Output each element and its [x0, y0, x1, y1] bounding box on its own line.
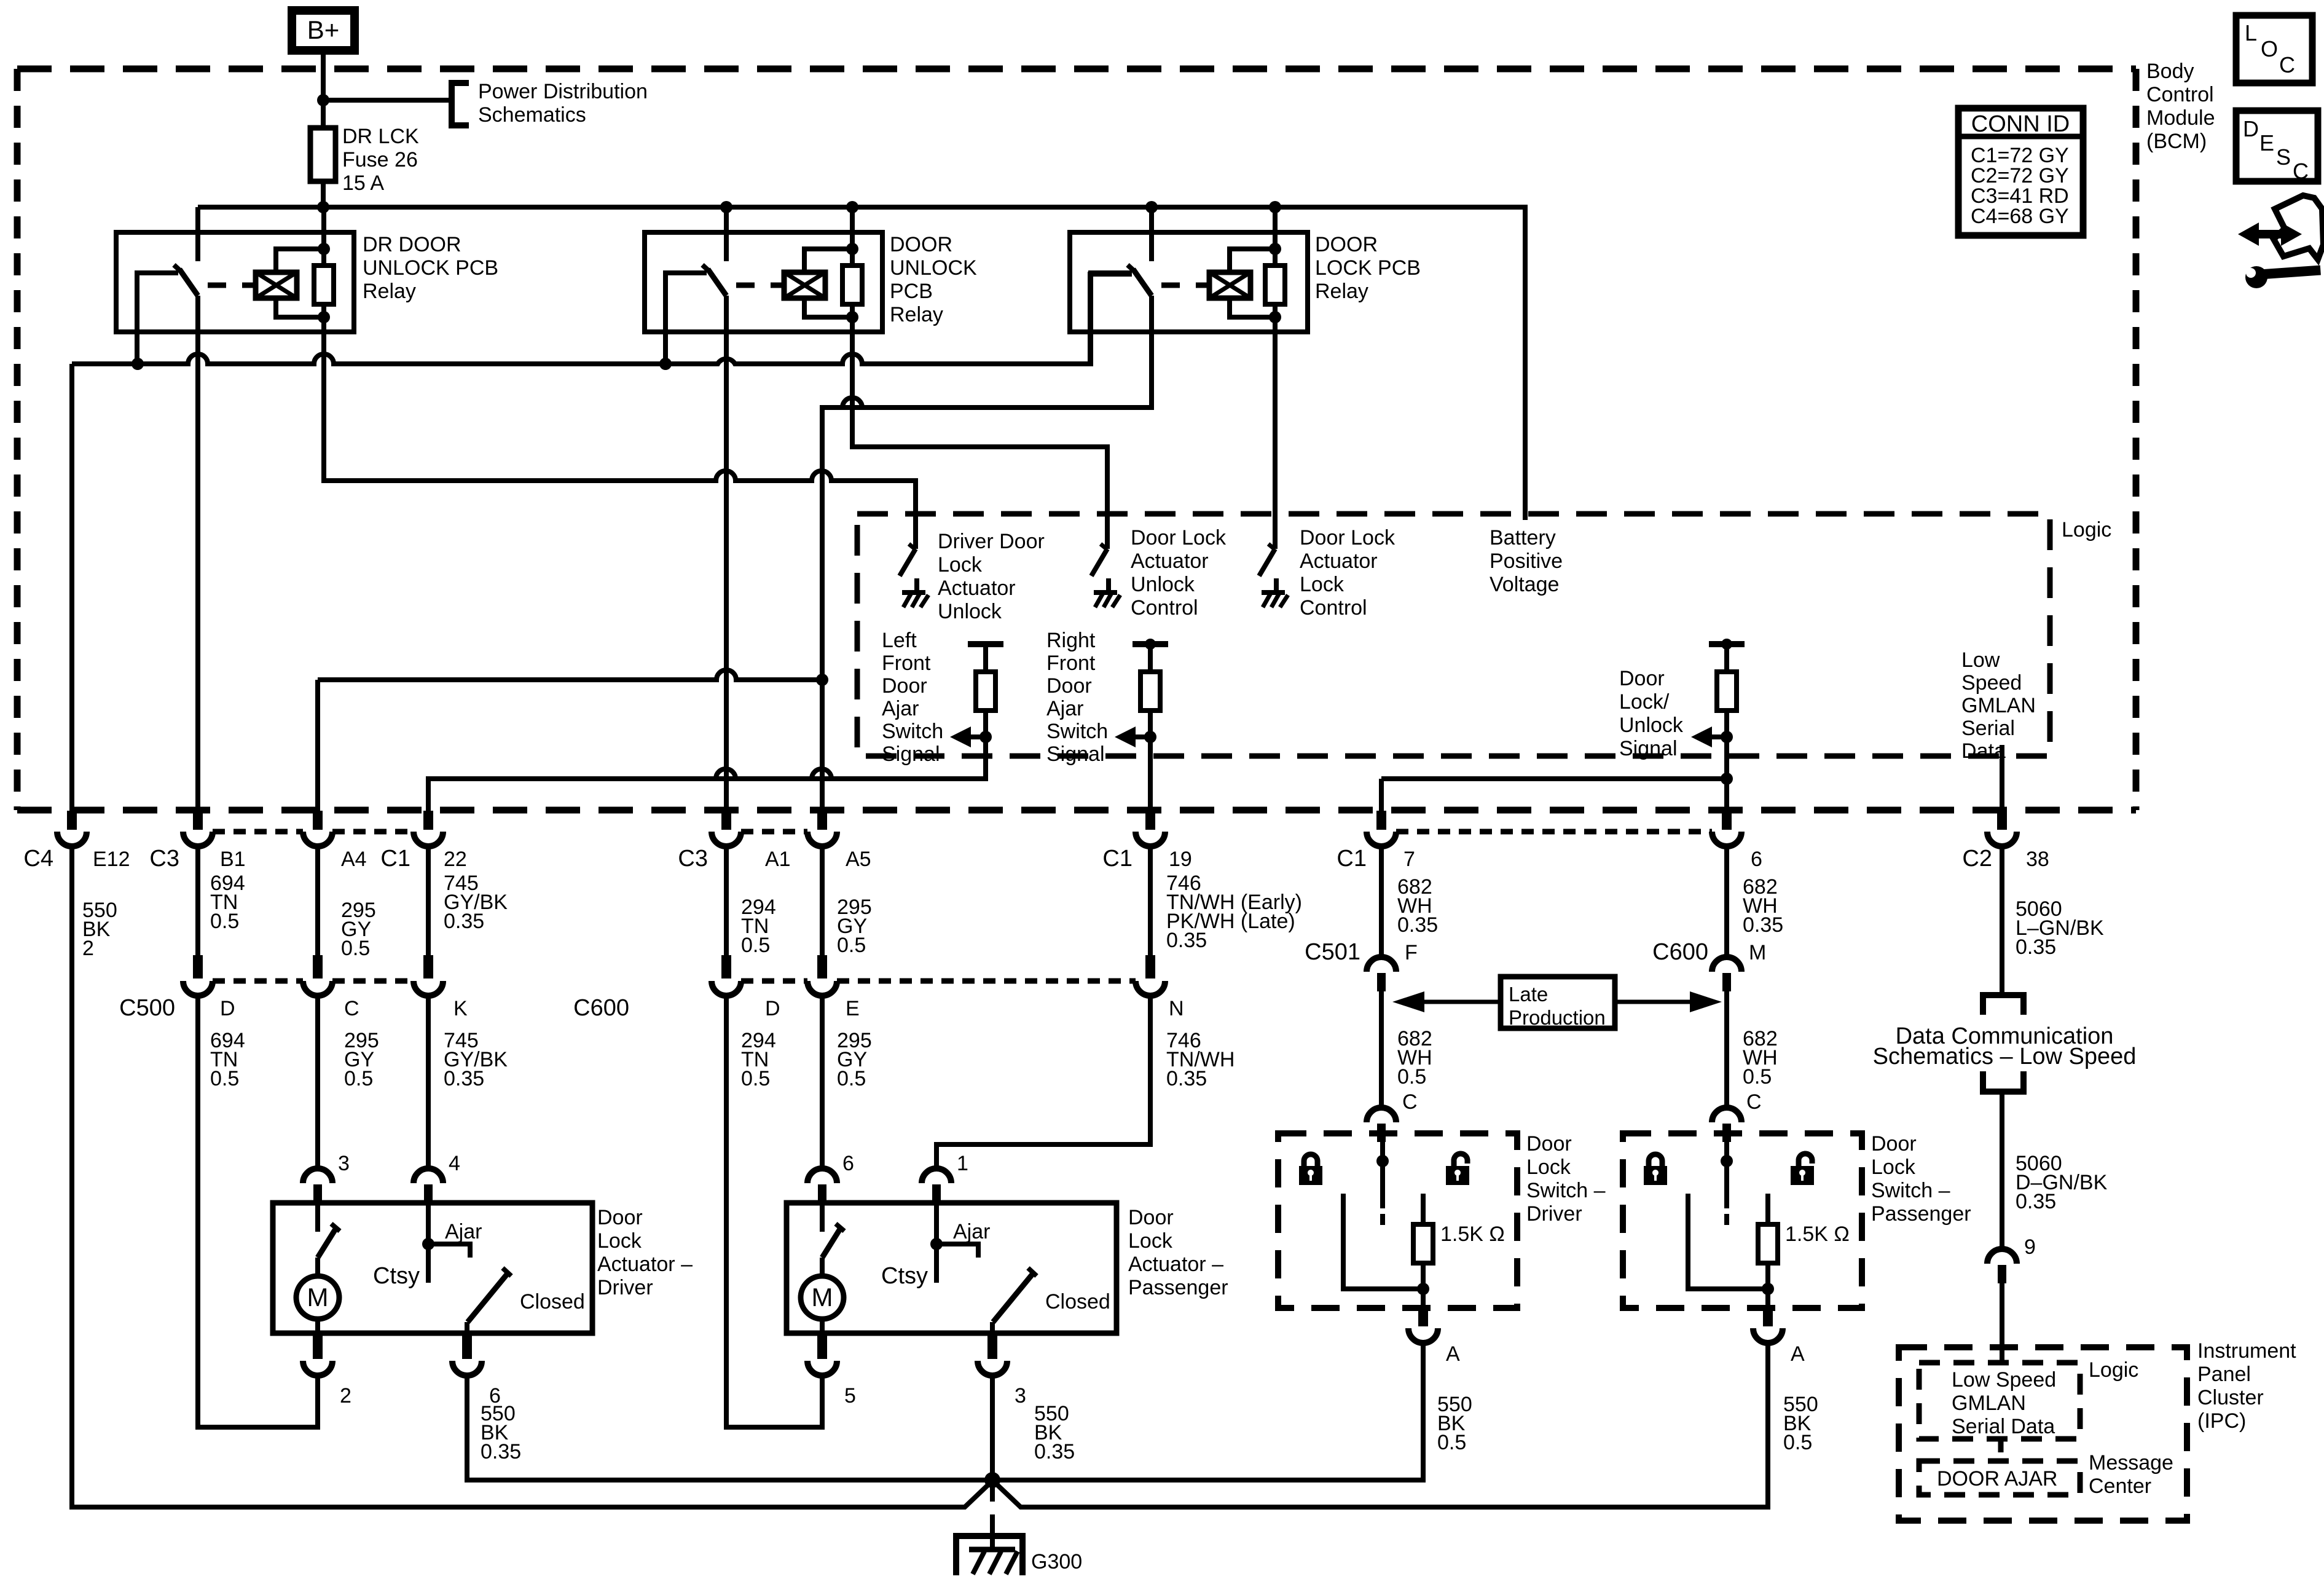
svg-text:6: 6: [1751, 848, 1762, 871]
svg-text:D: D: [220, 997, 235, 1020]
svg-text:Message: Message: [2089, 1451, 2173, 1475]
svg-text:0.35: 0.35: [1166, 929, 1207, 952]
svg-text:0.35: 0.35: [1743, 913, 1783, 937]
svg-text:9: 9: [2024, 1235, 2036, 1259]
svg-text:Door: Door: [882, 674, 927, 698]
svg-text:Serial Data: Serial Data: [1952, 1415, 2055, 1438]
svg-text:Driver: Driver: [1526, 1202, 1582, 1226]
svg-text:A1: A1: [765, 848, 791, 871]
svg-text:0.35: 0.35: [2016, 935, 2056, 959]
svg-text:0.5: 0.5: [1397, 1065, 1426, 1089]
svg-text:Actuator: Actuator: [1131, 549, 1209, 573]
svg-text:Low: Low: [1961, 648, 2000, 672]
svg-text:GMLAN: GMLAN: [1961, 694, 2036, 717]
svg-text:Closed: Closed: [520, 1290, 585, 1313]
svg-text:Actuator: Actuator: [938, 577, 1016, 600]
svg-text:E: E: [846, 997, 860, 1020]
svg-text:Door: Door: [1046, 674, 1092, 698]
svg-text:0.35: 0.35: [444, 1067, 484, 1090]
svg-text:0.5: 0.5: [1743, 1065, 1772, 1089]
svg-text:UNLOCK: UNLOCK: [890, 256, 977, 280]
svg-text:Door Lock: Door Lock: [1131, 526, 1227, 549]
svg-text:Panel: Panel: [2197, 1363, 2251, 1386]
svg-text:Front: Front: [882, 652, 931, 675]
svg-text:2: 2: [82, 937, 94, 960]
svg-text:Door: Door: [1128, 1206, 1174, 1229]
svg-text:Ajar: Ajar: [445, 1220, 482, 1243]
svg-text:Switch –: Switch –: [1871, 1179, 1950, 1202]
svg-text:Ctsy: Ctsy: [373, 1263, 420, 1289]
svg-text:38: 38: [2026, 848, 2049, 871]
svg-text:C1: C1: [1337, 846, 1367, 872]
svg-text:Control: Control: [1300, 596, 1367, 620]
svg-text:19: 19: [1169, 848, 1192, 871]
svg-text:0.5: 0.5: [1437, 1431, 1466, 1454]
svg-text:C1: C1: [1102, 846, 1133, 872]
svg-text:Unlock: Unlock: [1619, 714, 1684, 737]
svg-text:0.5: 0.5: [210, 910, 239, 933]
svg-text:0.35: 0.35: [1166, 1067, 1207, 1090]
svg-text:15 A: 15 A: [342, 171, 384, 195]
svg-text:Battery: Battery: [1490, 526, 1556, 549]
svg-text:0.5: 0.5: [837, 1067, 866, 1090]
svg-text:C1: C1: [380, 846, 410, 872]
svg-text:Schematics: Schematics: [478, 103, 586, 127]
svg-text:0.35: 0.35: [1397, 913, 1438, 937]
svg-text:DR LCK: DR LCK: [342, 125, 419, 148]
svg-text:C3: C3: [678, 846, 708, 872]
svg-text:Cluster: Cluster: [2197, 1386, 2264, 1409]
svg-text:Ajar: Ajar: [1046, 697, 1083, 720]
svg-text:Lock: Lock: [938, 553, 983, 577]
svg-text:Positive: Positive: [1490, 549, 1563, 573]
svg-text:Ctsy: Ctsy: [881, 1263, 928, 1289]
svg-text:Closed: Closed: [1045, 1290, 1110, 1313]
svg-text:Power Distribution: Power Distribution: [478, 80, 648, 103]
svg-text:PCB: PCB: [890, 280, 933, 303]
svg-text:A5: A5: [846, 848, 871, 871]
svg-text:C: C: [2293, 159, 2309, 184]
svg-text:DOOR: DOOR: [1315, 233, 1378, 256]
svg-text:E: E: [2259, 130, 2274, 156]
svg-text:S: S: [2276, 144, 2291, 170]
svg-text:1.5K Ω: 1.5K Ω: [1440, 1223, 1505, 1246]
svg-text:Late: Late: [1509, 983, 1548, 1006]
svg-text:UNLOCK PCB: UNLOCK PCB: [363, 256, 498, 280]
svg-text:Lock: Lock: [1871, 1156, 1916, 1179]
svg-text:Driver: Driver: [597, 1276, 653, 1299]
svg-text:Door: Door: [597, 1206, 643, 1229]
svg-text:Module: Module: [2146, 106, 2215, 130]
svg-text:Front: Front: [1046, 652, 1096, 675]
svg-text:6: 6: [842, 1152, 854, 1175]
svg-text:Relay: Relay: [363, 280, 416, 303]
svg-text:7: 7: [1403, 848, 1415, 871]
svg-text:Lock: Lock: [1300, 573, 1345, 596]
svg-text:0.5: 0.5: [837, 934, 866, 957]
svg-text:Lock/: Lock/: [1619, 690, 1670, 714]
svg-text:Logic: Logic: [2062, 518, 2111, 541]
svg-text:Schematics – Low Speed: Schematics – Low Speed: [1873, 1044, 2137, 1069]
svg-text:C: C: [1746, 1090, 1762, 1114]
svg-text:Switch: Switch: [1046, 720, 1108, 743]
svg-text:F: F: [1405, 941, 1418, 964]
svg-text:(IPC): (IPC): [2197, 1409, 2246, 1433]
svg-text:0.35: 0.35: [444, 910, 484, 933]
svg-text:3: 3: [338, 1152, 350, 1175]
svg-text:M: M: [812, 1283, 833, 1312]
svg-text:1: 1: [957, 1152, 968, 1175]
svg-text:D: D: [2243, 116, 2259, 141]
svg-text:Signal: Signal: [1046, 742, 1105, 766]
svg-text:Ajar: Ajar: [953, 1220, 990, 1243]
svg-text:B1: B1: [220, 848, 246, 871]
svg-text:Passenger: Passenger: [1128, 1276, 1228, 1299]
svg-text:0.35: 0.35: [1034, 1440, 1075, 1463]
svg-text:M: M: [307, 1283, 329, 1312]
svg-text:Low Speed: Low Speed: [1952, 1368, 2056, 1392]
svg-text:G300: G300: [1031, 1550, 1082, 1573]
svg-text:K: K: [453, 997, 468, 1020]
svg-text:Switch –: Switch –: [1526, 1179, 1606, 1202]
svg-text:CONN ID: CONN ID: [1971, 111, 2070, 137]
svg-text:C: C: [2279, 52, 2295, 77]
svg-text:GMLAN: GMLAN: [1952, 1392, 2026, 1415]
svg-text:Door: Door: [1871, 1132, 1917, 1156]
svg-text:Body: Body: [2146, 60, 2194, 83]
svg-text:LOCK PCB: LOCK PCB: [1315, 256, 1421, 280]
svg-text:Speed: Speed: [1961, 671, 2022, 695]
svg-text:C4: C4: [23, 846, 53, 872]
svg-text:E12: E12: [93, 848, 130, 871]
svg-text:Voltage: Voltage: [1490, 573, 1559, 596]
svg-text:Driver Door: Driver Door: [938, 530, 1045, 553]
svg-text:C600: C600: [1652, 939, 1708, 965]
svg-text:3: 3: [1015, 1384, 1026, 1408]
svg-text:DOOR AJAR: DOOR AJAR: [1937, 1467, 2057, 1490]
svg-text:Control: Control: [1131, 596, 1198, 620]
svg-text:Relay: Relay: [890, 303, 943, 326]
svg-text:O: O: [2261, 36, 2278, 61]
svg-text:Switch: Switch: [882, 720, 943, 743]
svg-text:Logic: Logic: [2089, 1358, 2138, 1382]
svg-text:0.35: 0.35: [2016, 1190, 2056, 1213]
svg-text:Fuse 26: Fuse 26: [342, 148, 418, 171]
svg-text:4: 4: [449, 1152, 460, 1175]
svg-text:Control: Control: [2146, 83, 2214, 106]
svg-text:Lock: Lock: [1526, 1156, 1571, 1179]
svg-text:Actuator: Actuator: [1300, 549, 1378, 573]
svg-text:0.5: 0.5: [741, 1067, 770, 1090]
svg-text:Signal: Signal: [1619, 737, 1678, 760]
svg-text:0.5: 0.5: [341, 937, 370, 960]
svg-text:22: 22: [444, 848, 467, 871]
svg-text:Unlock: Unlock: [1131, 573, 1195, 596]
svg-text:2: 2: [340, 1384, 351, 1408]
svg-text:L: L: [2245, 20, 2257, 45]
svg-text:Lock: Lock: [597, 1229, 642, 1253]
svg-text:Data: Data: [1961, 739, 2006, 763]
svg-text:DR DOOR: DR DOOR: [363, 233, 461, 256]
svg-text:Serial: Serial: [1961, 717, 2015, 740]
svg-text:Signal: Signal: [882, 742, 940, 766]
svg-text:Door: Door: [1619, 667, 1665, 690]
svg-text:C3: C3: [149, 846, 179, 872]
svg-text:0.5: 0.5: [741, 934, 770, 957]
svg-text:0.5: 0.5: [210, 1067, 239, 1090]
svg-text:Door: Door: [1526, 1132, 1572, 1156]
svg-text:A4: A4: [341, 848, 367, 871]
svg-text:A: A: [1446, 1342, 1460, 1366]
svg-text:DOOR: DOOR: [890, 233, 952, 256]
svg-text:B+: B+: [307, 15, 340, 44]
svg-text:C501: C501: [1305, 939, 1360, 965]
svg-text:D: D: [765, 997, 780, 1020]
svg-text:5: 5: [844, 1384, 856, 1408]
svg-text:Left: Left: [882, 629, 917, 652]
svg-text:A: A: [1791, 1342, 1805, 1366]
svg-text:Relay: Relay: [1315, 280, 1368, 303]
svg-text:M: M: [1749, 941, 1766, 964]
svg-text:Passenger: Passenger: [1871, 1202, 1971, 1226]
svg-text:(BCM): (BCM): [2146, 130, 2207, 153]
svg-text:Center: Center: [2089, 1475, 2151, 1498]
svg-text:C: C: [344, 997, 359, 1020]
svg-text:Actuator –: Actuator –: [597, 1253, 693, 1276]
svg-text:C2: C2: [1962, 846, 1992, 872]
svg-text:Door Lock: Door Lock: [1300, 526, 1396, 549]
svg-text:Ajar: Ajar: [882, 697, 919, 720]
svg-text:Actuator –: Actuator –: [1128, 1253, 1223, 1276]
svg-text:0.5: 0.5: [344, 1067, 373, 1090]
svg-text:N: N: [1169, 997, 1184, 1020]
svg-text:Unlock: Unlock: [938, 600, 1002, 623]
svg-text:Lock: Lock: [1128, 1229, 1173, 1253]
svg-text:C4=68 GY: C4=68 GY: [1971, 205, 2069, 228]
svg-text:C500: C500: [119, 995, 175, 1021]
svg-text:1.5K Ω: 1.5K Ω: [1785, 1223, 1850, 1246]
svg-text:Right: Right: [1046, 629, 1096, 652]
svg-text:Production: Production: [1509, 1006, 1606, 1029]
svg-text:C600: C600: [573, 995, 629, 1021]
svg-text:C: C: [1402, 1090, 1418, 1114]
svg-text:0.35: 0.35: [481, 1440, 521, 1463]
svg-text:Instrument: Instrument: [2197, 1339, 2296, 1363]
svg-text:0.5: 0.5: [1783, 1431, 1812, 1454]
